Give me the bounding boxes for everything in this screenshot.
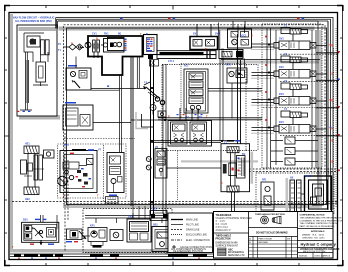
filter F1 twin elements xyxy=(93,40,100,58)
shadow right vertical strip xyxy=(319,30,322,208)
drain station labels xyxy=(30,219,54,245)
svg-text:DRAWN R.S. 02/11: DRAWN R.S. 02/11 xyxy=(302,233,325,236)
junction dots xyxy=(151,43,270,203)
drain pump labels xyxy=(66,241,78,242)
accumulator centre rod xyxy=(229,153,236,186)
manifold drop wires xyxy=(96,213,162,223)
sequence valve V6 xyxy=(155,149,167,179)
svg-text:KP1: KP1 xyxy=(90,225,95,228)
svg-text:DV4: DV4 xyxy=(279,121,284,124)
projection symbol cell divider xyxy=(249,228,298,237)
svg-text:DV1: DV1 xyxy=(279,38,284,41)
valve bank dashed enclosure right xyxy=(262,24,322,168)
title col1 lower text xyxy=(216,235,245,257)
svg-text:B: B xyxy=(96,38,98,41)
wire left margin drops xyxy=(26,60,29,103)
inlet check circle V1 xyxy=(101,43,108,47)
svg-text:MAX FLOW CIRCUIT – HYDRAULIC: MAX FLOW CIRCUIT – HYDRAULIC xyxy=(13,16,55,19)
company logo mark xyxy=(218,248,227,256)
legend box xyxy=(168,213,213,253)
nested manifold maze bottom right xyxy=(301,170,332,213)
svg-text:SURFACE FINISH N7: SURFACE FINISH N7 xyxy=(216,244,239,247)
svg-text:CONFIDENTIAL NOTICE: CONFIDENTIAL NOTICE xyxy=(300,213,326,216)
svg-text:HE2: HE2 xyxy=(25,198,30,201)
accumulator left gland bar xyxy=(223,164,227,174)
title col3 top text xyxy=(300,213,344,228)
bank module 1 solenoid xyxy=(281,28,308,42)
svg-text:G: G xyxy=(251,34,253,37)
svg-text:ELEC. CONNECTION: ELEC. CONNECTION xyxy=(186,239,210,242)
svg-text:GP1: GP1 xyxy=(226,64,231,67)
wire CP1 to riser xyxy=(91,89,120,91)
kidney loop pump cluster xyxy=(88,228,107,248)
accumulator shadow strip xyxy=(251,152,254,184)
cooler assembly left column xyxy=(21,146,45,195)
drain station feed wires xyxy=(41,215,58,229)
manifold divider thick xyxy=(142,36,144,57)
bank tail valve c xyxy=(271,158,318,165)
sampling valve box xyxy=(110,230,123,241)
svg-text:X.X ± 0.25: X.X ± 0.25 xyxy=(216,224,228,226)
V7 label xyxy=(109,195,117,197)
svg-text:THE COMPANY. REPRODUCTION IN: THE COMPANY. REPRODUCTION IN xyxy=(300,222,338,225)
module exit port marks xyxy=(330,44,341,172)
wire cross connector C xyxy=(150,141,238,143)
bottom right dotted enclosure xyxy=(256,173,334,214)
maze shadow xyxy=(286,178,289,212)
svg-text:DRAIN LINE: DRAIN LINE xyxy=(186,229,200,232)
svg-text:TM1: TM1 xyxy=(128,216,133,219)
shadow around legend box xyxy=(165,216,168,254)
svg-text:PROJECTION: PROJECTION xyxy=(216,239,231,241)
dashed bus line lower xyxy=(12,202,337,204)
filler unit mid left xyxy=(44,150,55,158)
main pump P2 xyxy=(58,162,87,186)
stepped drain wire xyxy=(142,114,154,127)
svg-text:CHECKED T.M. 02/11: CHECKED T.M. 02/11 xyxy=(302,237,325,239)
riser pair left of centre xyxy=(131,57,133,207)
bottom row cells xyxy=(313,253,322,259)
shadow under centre dashed bus xyxy=(63,205,320,209)
pilot control box CP1 label xyxy=(68,65,77,67)
selector box CP2 xyxy=(63,105,93,130)
hand pump P1 top left xyxy=(24,33,49,62)
drain pump circle box xyxy=(67,229,91,240)
svg-text:SV1: SV1 xyxy=(193,33,198,36)
wire CP2 to riser xyxy=(93,121,131,123)
module exit wires right xyxy=(316,53,339,136)
svg-text:THIS DRAWING AND THE INFORMATI: THIS DRAWING AND THE INFORMATION xyxy=(300,217,342,220)
svg-text:HX: HX xyxy=(290,177,294,180)
secondary riser lines centre xyxy=(163,64,166,214)
svg-text:DIMENSIONS IN MM: DIMENSIONS IN MM xyxy=(216,242,238,244)
main system dashed boundary xyxy=(64,25,326,202)
tank symbol bottom centre xyxy=(190,230,202,242)
bank module 3 spool valve xyxy=(252,91,328,105)
svg-text:CONTAINED IS THE SOLE PROPERTY: CONTAINED IS THE SOLE PROPERTY OF xyxy=(300,219,344,222)
svg-text:ENGINEERING: ENGINEERING xyxy=(228,252,244,254)
sample bottle unit xyxy=(152,227,181,252)
pump case drain glyph xyxy=(87,159,94,165)
svg-text:PART OR WHOLE IS PROHIBITED.: PART OR WHOLE IS PROHIBITED. xyxy=(300,225,336,228)
spool section SA xyxy=(171,122,188,144)
wire cross connector B xyxy=(131,119,164,121)
svg-text:MB1: MB1 xyxy=(306,175,312,178)
svg-text:HE1: HE1 xyxy=(25,143,30,146)
wire right bank drops xyxy=(267,28,271,168)
spool feeder wires xyxy=(158,108,262,121)
svg-text:DE-ENERGIZED POSITION: DE-ENERGIZED POSITION xyxy=(173,250,203,253)
manifold port squares xyxy=(151,214,225,219)
svg-text:ABC: ABC xyxy=(228,248,233,251)
legend captions xyxy=(171,219,214,254)
check valve CV1 xyxy=(63,44,83,50)
svg-text:C: C xyxy=(221,182,223,185)
pilot dashed riser between boxes xyxy=(103,145,105,202)
shadow band left inside frame xyxy=(10,14,13,252)
svg-text:REV B: REV B xyxy=(324,256,331,258)
svg-text:REVISED: REVISED xyxy=(259,242,269,244)
wire bottom manifold xyxy=(85,216,318,219)
svg-text:DV3: DV3 xyxy=(279,93,284,96)
legend line samples and captions xyxy=(171,220,183,250)
svg-text:ACC1: ACC1 xyxy=(240,34,247,37)
title col1 notes text xyxy=(216,214,253,232)
bank module 2 spool valve xyxy=(252,64,328,78)
main riser lines centre xyxy=(151,60,154,215)
svg-text:RF1: RF1 xyxy=(262,179,267,182)
title col3 approval text xyxy=(302,230,325,239)
ruler tick marks left edge xyxy=(5,38,9,233)
wire CP1 feed xyxy=(75,57,77,69)
title block column dividers xyxy=(249,212,298,259)
svg-text:ALL PRESSURES IN BAR (PSI): ALL PRESSURES IN BAR (PSI) xyxy=(15,20,52,23)
riser right centre xyxy=(220,58,223,141)
bottom left dashed enclosure xyxy=(83,209,172,253)
wire cross connector A xyxy=(91,88,146,90)
shuttle valve V4 xyxy=(158,111,166,117)
nested top enclosure lines xyxy=(56,18,333,211)
svg-text:UNLESS OTHERWISE SPECIFIED: UNLESS OTHERWISE SPECIFIED xyxy=(216,218,253,220)
heat exchanger bars bottom right xyxy=(290,180,301,212)
micro port marks under strip xyxy=(18,258,200,259)
unloader valve stack V7 xyxy=(107,153,124,193)
selector box CP2 label xyxy=(65,102,76,104)
pressure gauge G1 xyxy=(150,102,156,114)
shadow bar inside left box top xyxy=(19,27,57,31)
ruler tick marks top edge xyxy=(46,6,299,10)
accumulator unit U1 xyxy=(228,21,252,48)
bank module 4 solenoid xyxy=(281,111,308,125)
filter block port square xyxy=(148,55,153,60)
breather port marks xyxy=(17,111,30,112)
title col3 approval divider xyxy=(298,229,334,253)
title col1 divider xyxy=(214,232,249,234)
mini valve under cylinder xyxy=(150,60,159,67)
check valve CV2 xyxy=(81,42,91,48)
svg-text:PL1: PL1 xyxy=(184,65,189,68)
svg-text:ANGULAR ± 1°: ANGULAR ± 1° xyxy=(216,229,232,232)
nested enclosure left stubs xyxy=(56,18,58,29)
shadow under left tall box xyxy=(19,115,60,120)
rod block xyxy=(219,23,244,59)
transfer manifold cluster xyxy=(127,206,151,242)
accumulator bottom hatch cap xyxy=(227,186,239,192)
shadow under pilot enclosure xyxy=(181,160,258,162)
svg-text:CV1: CV1 xyxy=(92,33,97,36)
main system outline second xyxy=(67,28,327,205)
bank module 4 spool valve xyxy=(252,119,328,133)
svg-text:SIZE A1: SIZE A1 xyxy=(299,255,308,258)
projection cone symbol xyxy=(272,216,281,224)
wire top chain feeders xyxy=(238,26,245,34)
dashed bus line upper xyxy=(249,169,337,172)
svg-text:DS1: DS1 xyxy=(23,218,28,221)
shadow under bottom left cluster xyxy=(85,250,157,253)
thick marks on revision strip xyxy=(14,254,207,257)
svg-text:TOLERANCES: TOLERANCES xyxy=(216,214,232,217)
svg-text:Hydraul C ompany: Hydraul C ompany xyxy=(301,242,337,247)
svg-text:CS1: CS1 xyxy=(152,207,157,210)
revision table grid xyxy=(249,237,298,259)
pump micro fittings xyxy=(76,168,92,187)
drawing title lines xyxy=(300,248,339,253)
svg-text:RV1: RV1 xyxy=(104,33,109,36)
title block outer xyxy=(214,212,334,259)
shadow bar under top enclosure xyxy=(59,27,315,31)
port labels blue scatter xyxy=(23,25,312,228)
svg-text:ENCLOSURE LINE: ENCLOSURE LINE xyxy=(186,234,207,237)
pilot section dotted enclosure centre xyxy=(162,65,246,151)
shadow band under top gallery row xyxy=(221,61,320,64)
return filter unit bottom right xyxy=(261,182,274,210)
svg-text:APPROVALS: APPROVALS xyxy=(311,230,325,233)
shadow band bottom inside frame xyxy=(10,249,320,253)
svg-text:X ± 0.5: X ± 0.5 xyxy=(216,221,226,223)
port marks red scatter xyxy=(12,33,334,249)
svg-text:FIRST ISSUE: FIRST ISSUE xyxy=(259,238,273,240)
svg-text:THIRD ANGLE PROJECTION: THIRD ANGLE PROJECTION xyxy=(255,213,285,216)
pilot gauge pair xyxy=(146,157,151,170)
spool section SB xyxy=(190,122,207,144)
bank module 1 spool valve xyxy=(252,36,328,50)
wire gallery bus xyxy=(221,59,320,61)
svg-text:CYL1: CYL1 xyxy=(168,60,175,63)
port label column xyxy=(125,39,127,51)
power unit label bar xyxy=(70,149,94,154)
dotted pilot drain line right xyxy=(333,48,335,168)
accumulator top hatch cap xyxy=(227,147,239,153)
svg-text:A: A xyxy=(71,42,73,45)
power unit inner frame xyxy=(64,155,93,189)
bank dashed divider xyxy=(263,107,337,109)
pilot valve pair V2 xyxy=(190,24,218,50)
accumulator side valve box xyxy=(237,156,246,179)
stepped drain wire shadow xyxy=(136,112,148,129)
inner pilot dotted edge xyxy=(181,64,247,119)
svg-text:MAIN LINE: MAIN LINE xyxy=(186,219,198,222)
suction strainer lines P1 xyxy=(20,52,32,110)
power unit enclosure left centre xyxy=(60,151,97,193)
ruler tick marks bottom edge xyxy=(46,262,299,266)
bank module 2 solenoid xyxy=(281,56,308,70)
left tall subsystem box xyxy=(17,25,57,116)
riser at gallery xyxy=(238,34,241,144)
manifold block thick outline xyxy=(88,36,143,75)
svg-text:THIRD ANGLE: THIRD ANGLE xyxy=(216,235,232,238)
pilot valve stack PS1 xyxy=(184,69,208,113)
bank module 3 solenoid xyxy=(281,83,308,97)
control lever L1 xyxy=(143,82,165,105)
svg-text:PU1: PU1 xyxy=(64,144,69,147)
gallery block GB1 xyxy=(227,59,247,119)
pump motor group M1 xyxy=(104,38,125,53)
svg-text:SV2: SV2 xyxy=(215,33,220,36)
accumulator label marks xyxy=(227,140,240,142)
capsule sampler xyxy=(150,211,167,221)
dotted right margin line xyxy=(335,28,337,208)
wire left risers bottom xyxy=(65,133,68,251)
right rail bus xyxy=(327,21,329,210)
V7 sub label box xyxy=(106,197,119,204)
top line port marks xyxy=(120,18,304,19)
bank tail valve a xyxy=(271,137,318,144)
filter block label dashes xyxy=(147,39,153,52)
pilot control box CP1 xyxy=(66,68,91,90)
ruler tick marks right edge xyxy=(339,38,343,233)
svg-text:SB1: SB1 xyxy=(153,223,158,226)
revision table entries xyxy=(249,237,291,244)
main cylinder CYL1 xyxy=(157,51,216,59)
bank tail valve b xyxy=(271,148,318,155)
svg-text:X.XX ± 0.12: X.XX ± 0.12 xyxy=(216,227,229,229)
svg-text:PILOT LINE: PILOT LINE xyxy=(186,224,199,227)
svg-text:DV2: DV2 xyxy=(279,66,284,69)
wire right bank inner rails xyxy=(276,30,316,168)
projection circle symbol xyxy=(261,216,269,224)
module divider dashes right xyxy=(280,54,337,135)
svg-text:DO NOT SCALE DRAWING: DO NOT SCALE DRAWING xyxy=(256,231,288,234)
drain station box bottom far left xyxy=(22,222,59,245)
accumulator cylinder unit outer xyxy=(221,144,250,192)
svg-text:BV: BV xyxy=(242,153,246,156)
spool sections outer frame xyxy=(168,121,212,147)
power unit dotted enclosure xyxy=(58,144,127,198)
wire dotted left branch xyxy=(64,138,135,140)
wire bottom revision strip xyxy=(10,254,213,257)
svg-text:SERVICES LTD: SERVICES LTD xyxy=(228,255,245,257)
filter block FL1 xyxy=(144,35,158,55)
standpipe valve P1b xyxy=(33,55,48,86)
